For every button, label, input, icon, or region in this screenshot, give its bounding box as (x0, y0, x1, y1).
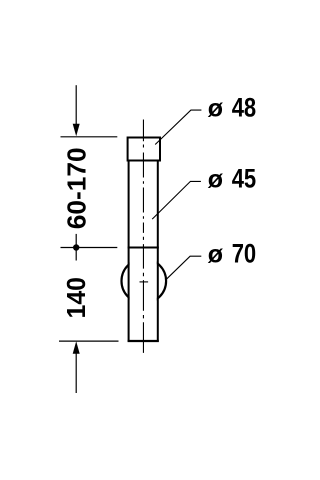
svg-text:140: 140 (61, 277, 91, 319)
svg-text:ø: ø (208, 165, 224, 193)
svg-text:48: 48 (232, 93, 257, 123)
svg-text:ø: ø (208, 95, 224, 123)
svg-text:ø: ø (208, 240, 224, 268)
svg-text:60-170: 60-170 (61, 147, 91, 229)
svg-text:45: 45 (232, 163, 257, 193)
svg-text:70: 70 (232, 238, 257, 268)
